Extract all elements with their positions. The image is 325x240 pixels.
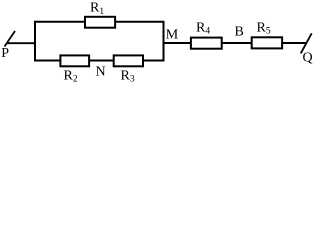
resistor R1: [85, 17, 115, 28]
resistor R4: [191, 38, 222, 49]
wire bottom-right segment: [143, 60, 164, 62]
resistor R2: [60, 55, 89, 66]
wire bottom-left segment: [34, 60, 60, 62]
wire M to R4: [164, 42, 191, 44]
svg-text:N: N: [96, 65, 106, 80]
wire right vertical: [163, 21, 165, 62]
svg-text:Q: Q: [303, 51, 313, 66]
wire top-left segment: [34, 21, 85, 23]
wire node N segment: [89, 60, 114, 62]
wire R5 to Q: [282, 42, 307, 44]
wire R4 to R5 (node B): [222, 42, 252, 44]
terminal Q slash: [301, 33, 312, 53]
svg-text:M: M: [166, 27, 179, 42]
svg-text:B: B: [235, 25, 244, 40]
terminal P slash: [5, 31, 16, 47]
wire P to left vertical: [7, 42, 35, 44]
resistor R5: [252, 37, 282, 48]
svg-text:P: P: [1, 46, 9, 61]
wire left vertical: [34, 21, 36, 62]
wire top-right segment: [115, 21, 164, 23]
resistor R3: [114, 55, 143, 66]
